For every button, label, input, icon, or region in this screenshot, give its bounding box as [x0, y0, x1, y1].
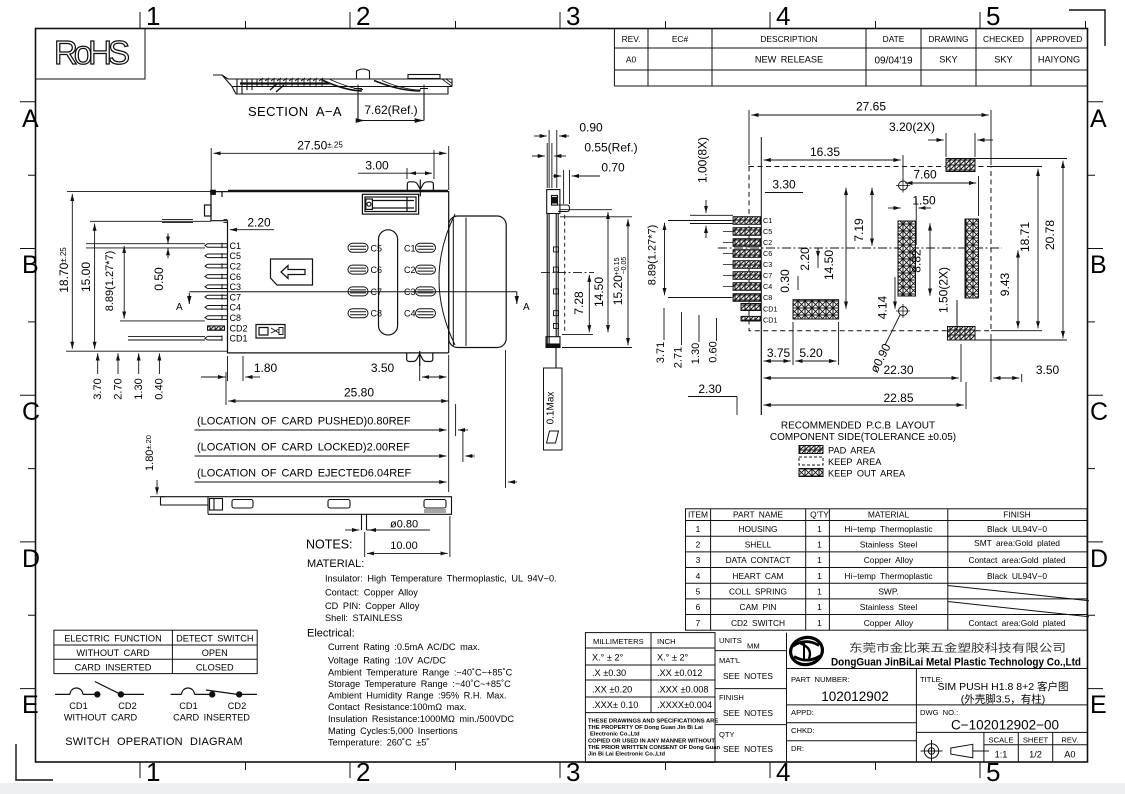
svg-text:7.62(Ref.): 7.62(Ref.): [364, 103, 417, 117]
svg-text:C4: C4: [763, 282, 772, 291]
svg-text:9.43: 9.43: [998, 272, 1012, 296]
svg-text:16.35: 16.35: [810, 145, 840, 159]
svg-text:COMPONENT SIDE(TOLERANCE ±0.05: COMPONENT SIDE(TOLERANCE ±0.05): [770, 432, 956, 443]
svg-text:Stainless Steel: Stainless Steel: [860, 540, 918, 550]
svg-text:EC#: EC#: [672, 34, 689, 44]
svg-text:Hi−temp Thermoplastic: Hi−temp Thermoplastic: [844, 524, 932, 534]
svg-text:DRAWING: DRAWING: [928, 34, 968, 44]
svg-text:CD2: CD2: [230, 323, 248, 333]
svg-text:Insulator: High Temperature Th: Insulator: High Temperature Thermoplasti…: [325, 574, 557, 584]
svg-text:(LOCATION OF CARD EJECTED6.04R: (LOCATION OF CARD EJECTED6.04REF: [197, 468, 411, 480]
svg-text:ELECTRIC FUNCTION: ELECTRIC FUNCTION: [64, 634, 161, 644]
svg-text:COPIED OR USED IN ANY MANNER W: COPIED OR USED IN ANY MANNER WITHOUT: [588, 739, 715, 745]
svg-text:2.30: 2.30: [698, 382, 722, 396]
svg-text:(LOCATION OF CARD LOCKED)2.00R: (LOCATION OF CARD LOCKED)2.00REF: [197, 442, 410, 454]
svg-text:0.1Max: 0.1Max: [546, 392, 557, 425]
svg-text:Current Rating :0.5mA AC/DC ma: Current Rating :0.5mA AC/DC max.: [328, 642, 480, 652]
svg-text:2.70: 2.70: [113, 378, 125, 399]
svg-text:5.20: 5.20: [799, 346, 823, 360]
svg-text:1.30: 1.30: [690, 343, 702, 364]
svg-text:SIM PUSH H1.8 8+2 客户图: SIM PUSH H1.8 8+2 客户图: [938, 680, 1069, 693]
svg-text:SWP.: SWP.: [878, 587, 898, 597]
svg-text:SECTION A−A: SECTION A−A: [248, 104, 342, 119]
svg-text:7.19: 7.19: [852, 218, 866, 242]
svg-text:.XX ±0.20: .XX ±0.20: [592, 685, 632, 695]
svg-text:1: 1: [817, 602, 822, 612]
svg-text:1: 1: [817, 555, 822, 565]
svg-text:X.° ± 2°: X.° ± 2°: [592, 653, 624, 663]
svg-text:C−102012902−00: C−102012902−00: [951, 718, 1059, 733]
svg-text:3.70: 3.70: [92, 378, 104, 399]
svg-text:0.90: 0.90: [579, 121, 603, 135]
svg-text:2.20: 2.20: [798, 247, 812, 271]
svg-text:1: 1: [696, 524, 701, 534]
svg-text:8.82: 8.82: [910, 249, 924, 273]
svg-text:.XX ±0.012: .XX ±0.012: [657, 668, 702, 678]
svg-text:Temperature: 260˚C ±5˚: Temperature: 260˚C ±5˚: [328, 738, 429, 748]
svg-text:C6: C6: [230, 272, 242, 282]
svg-text:09/04'19: 09/04'19: [874, 56, 912, 67]
svg-text:3: 3: [566, 1, 580, 31]
svg-text:14.50: 14.50: [592, 277, 606, 307]
svg-text:THESE DRAWINGS AND SPECIFICATI: THESE DRAWINGS AND SPECIFICATIONS ARE: [588, 719, 718, 725]
svg-text:5: 5: [986, 757, 1000, 787]
svg-text:Storage Temperature Range :−40: Storage Temperature Range :−40˚C~+85˚C: [328, 679, 511, 689]
svg-text:DETECT SWITCH: DETECT SWITCH: [176, 634, 253, 644]
svg-text:C2: C2: [230, 262, 242, 272]
svg-text:3.50: 3.50: [1036, 363, 1060, 377]
svg-text:C: C: [1090, 398, 1108, 426]
svg-text:CARD INSERTED: CARD INSERTED: [75, 663, 152, 673]
svg-text:C1: C1: [404, 243, 416, 253]
svg-text:C8: C8: [371, 309, 383, 319]
svg-text:1: 1: [817, 587, 822, 597]
svg-text:RECOMMENDED P.C.B LAYOUT: RECOMMENDED P.C.B LAYOUT: [781, 421, 935, 432]
svg-text:SEE NOTES: SEE NOTES: [723, 671, 773, 681]
svg-text:Mating Cycles:5,000 Insertions: Mating Cycles:5,000 Insertions: [328, 726, 458, 736]
svg-text:C2: C2: [404, 265, 416, 275]
svg-text:3.20(2X): 3.20(2X): [889, 120, 935, 134]
svg-text:A0: A0: [1064, 750, 1075, 760]
svg-text:PART NUMBER:: PART NUMBER:: [791, 675, 850, 684]
svg-text:Electrical:: Electrical:: [307, 628, 355, 640]
svg-text:WITHOUT CARD: WITHOUT CARD: [76, 648, 150, 658]
svg-text:3.00: 3.00: [365, 159, 389, 173]
svg-text:HEART CAM: HEART CAM: [732, 571, 783, 581]
svg-text:2: 2: [696, 540, 701, 550]
svg-text:E: E: [22, 691, 39, 719]
svg-text:CD2 SWITCH: CD2 SWITCH: [731, 618, 785, 628]
svg-text:C2: C2: [763, 238, 772, 247]
svg-text:Ambient Humidity Range :95% R.: Ambient Humidity Range :95% R.H. Max.: [328, 691, 507, 701]
svg-text:X.° ± 2°: X.° ± 2°: [657, 653, 689, 663]
svg-text:3.30: 3.30: [772, 178, 796, 192]
svg-text:8.89(1.27*7): 8.89(1.27*7): [647, 225, 659, 286]
svg-text:SWITCH OPERATION DIAGRAM: SWITCH OPERATION DIAGRAM: [65, 736, 243, 748]
svg-text:APPD:: APPD:: [791, 708, 814, 717]
svg-text:CHECKED: CHECKED: [983, 34, 1024, 44]
svg-text:Electronic Co.,Ltd: Electronic Co.,Ltd: [590, 732, 640, 738]
svg-text:4.14: 4.14: [876, 295, 890, 319]
svg-text:1.30: 1.30: [133, 378, 145, 399]
svg-text:1: 1: [817, 540, 822, 550]
svg-text:4: 4: [696, 571, 701, 581]
svg-text:.XXXX±0.004: .XXXX±0.004: [657, 700, 712, 710]
svg-text:2.20: 2.20: [247, 216, 271, 230]
svg-text:.XXX± 0.10: .XXX± 0.10: [592, 700, 638, 710]
svg-text:6: 6: [696, 602, 701, 612]
svg-text:REV.: REV.: [1061, 736, 1078, 745]
svg-text:14.50: 14.50: [822, 250, 836, 280]
svg-text:1.50(2X): 1.50(2X): [937, 267, 951, 313]
svg-text:CARD INSERTED: CARD INSERTED: [173, 713, 250, 723]
svg-text:4: 4: [776, 1, 790, 31]
svg-text:0.50: 0.50: [152, 267, 166, 291]
svg-text:A: A: [523, 302, 530, 313]
svg-text:1.50: 1.50: [912, 194, 936, 208]
svg-text:C5: C5: [230, 251, 242, 261]
svg-text:KEEP AREA: KEEP AREA: [828, 457, 882, 467]
svg-text:B: B: [22, 251, 39, 279]
svg-text:CHKD:: CHKD:: [791, 726, 815, 735]
svg-text:RoHS: RoHS: [54, 34, 130, 71]
svg-text:3.50: 3.50: [371, 361, 395, 375]
svg-text:DATE: DATE: [883, 34, 905, 44]
svg-text:CD2: CD2: [118, 701, 136, 711]
svg-text:7.60: 7.60: [913, 168, 937, 182]
svg-text:5: 5: [986, 1, 1000, 31]
svg-text:2: 2: [356, 1, 370, 31]
svg-text:DESCRIPTION: DESCRIPTION: [760, 34, 817, 44]
svg-text:1/2: 1/2: [1029, 750, 1042, 760]
svg-text:20.78: 20.78: [1043, 220, 1057, 250]
svg-text:Contact: Copper Alloy: Contact: Copper Alloy: [325, 588, 418, 598]
svg-text:OPEN: OPEN: [202, 648, 228, 658]
svg-text:2.71: 2.71: [673, 347, 685, 368]
svg-text:SKY: SKY: [939, 55, 957, 65]
svg-text:APPROVED: APPROVED: [1036, 34, 1083, 44]
svg-text:NOTES:: NOTES:: [306, 538, 353, 552]
svg-text:MATERIAL: MATERIAL: [868, 510, 910, 520]
svg-text:Voltage Rating :10V AC/DC: Voltage Rating :10V AC/DC: [328, 656, 446, 666]
svg-text:Shell: STAINLESS: Shell: STAINLESS: [325, 613, 402, 623]
svg-text:SKY: SKY: [994, 55, 1012, 65]
svg-text:C3: C3: [230, 282, 242, 292]
svg-text:PART NAME: PART NAME: [733, 510, 783, 520]
svg-text:18.71: 18.71: [1018, 222, 1032, 252]
svg-text:C3: C3: [763, 260, 772, 269]
svg-text:INCH: INCH: [657, 637, 676, 646]
svg-text:4: 4: [776, 757, 790, 787]
svg-text:DATA CONTACT: DATA CONTACT: [726, 555, 791, 565]
svg-text:C4: C4: [404, 309, 416, 319]
svg-text:HAIYONG: HAIYONG: [1038, 55, 1080, 65]
svg-text:0.60: 0.60: [708, 341, 720, 362]
svg-text:A: A: [22, 105, 39, 133]
svg-text:DWG NO.:: DWG NO.:: [920, 708, 958, 717]
svg-text:1.00(8X): 1.00(8X): [696, 137, 710, 183]
svg-text:3: 3: [566, 757, 580, 787]
svg-text:THE PROPERTY OF Dong Guan Jin: THE PROPERTY OF Dong Guan Jin Bi Lai: [588, 725, 703, 731]
svg-text:CAM PIN: CAM PIN: [740, 602, 777, 612]
svg-text:SEE NOTES: SEE NOTES: [723, 744, 773, 754]
svg-text:0.70: 0.70: [601, 161, 625, 175]
svg-text:SEE NOTES: SEE NOTES: [723, 708, 773, 718]
svg-text:1.80: 1.80: [254, 361, 278, 375]
svg-text:WITHOUT CARD: WITHOUT CARD: [64, 713, 138, 723]
svg-text:DongGuan JinBiLai Metal Plasti: DongGuan JinBiLai Metal Plastic Technolo…: [831, 657, 1081, 669]
svg-text:D: D: [22, 545, 40, 573]
svg-text:0.55(Ref.): 0.55(Ref.): [584, 141, 637, 155]
svg-text:DR:: DR:: [791, 744, 804, 753]
svg-text:C5: C5: [763, 227, 772, 236]
svg-text:(LOCATION OF CARD PUSHED)0.80R: (LOCATION OF CARD PUSHED)0.80REF: [197, 416, 411, 428]
svg-text:MATERIAL:: MATERIAL:: [307, 558, 364, 570]
svg-text:7: 7: [696, 618, 701, 628]
svg-text:SHEET: SHEET: [1023, 736, 1049, 745]
svg-text:Q'TY: Q'TY: [810, 510, 829, 520]
svg-text:SMT area:Gold plated: SMT area:Gold plated: [974, 538, 1060, 548]
svg-text:.X ±0.30: .X ±0.30: [592, 668, 626, 678]
svg-text:7.28: 7.28: [572, 291, 586, 315]
svg-text:Jin Bi Lai Electronic Co.,Ltd: Jin Bi Lai Electronic Co.,Ltd: [588, 752, 665, 758]
svg-text:C1: C1: [230, 241, 242, 251]
svg-text:HOUSING: HOUSING: [738, 524, 777, 534]
svg-text:CD2: CD2: [228, 701, 246, 711]
svg-text:102012902: 102012902: [821, 689, 889, 704]
svg-text:27.65: 27.65: [856, 100, 886, 114]
svg-text:C6: C6: [371, 265, 383, 275]
svg-text:A: A: [176, 302, 183, 313]
svg-text:Stainless Steel: Stainless Steel: [860, 602, 918, 612]
svg-text:东莞市金比莱五金塑胶科技有限公司: 东莞市金比莱五金塑胶科技有限公司: [849, 641, 1066, 655]
svg-text:CD1: CD1: [763, 305, 777, 314]
svg-text:REV.: REV.: [622, 34, 641, 44]
svg-text:Insulation Resistance:1000MΩ m: Insulation Resistance:1000MΩ min./500VDC: [328, 714, 514, 724]
svg-text:C7: C7: [763, 271, 772, 280]
svg-text:1: 1: [817, 524, 822, 534]
svg-text:CD1: CD1: [179, 701, 197, 711]
svg-text:B: B: [1090, 251, 1107, 279]
svg-text:C8: C8: [763, 293, 772, 302]
svg-text:PAD AREA: PAD AREA: [828, 446, 876, 456]
svg-text:ø0.80: ø0.80: [390, 519, 418, 531]
svg-text:Copper Alloy: Copper Alloy: [864, 618, 914, 628]
svg-text:SCALE: SCALE: [989, 736, 1014, 745]
svg-text:Ambient Temperature Range :−40: Ambient Temperature Range :−40˚C~+85˚C: [328, 668, 513, 678]
svg-text:10.00: 10.00: [390, 540, 418, 552]
svg-text:.XXX ±0.008: .XXX ±0.008: [657, 685, 709, 695]
svg-text:A: A: [1090, 105, 1107, 133]
svg-text:CD PIN: Copper Alloy: CD PIN: Copper Alloy: [325, 601, 420, 611]
svg-text:1:1: 1:1: [995, 750, 1008, 760]
svg-text:Contact area:Gold plated: Contact area:Gold plated: [968, 618, 1065, 628]
svg-text:FINISH: FINISH: [1003, 510, 1030, 520]
svg-text:8.89(1.27*7): 8.89(1.27*7): [104, 251, 116, 312]
svg-text:QTY: QTY: [719, 730, 735, 739]
svg-text:22.30: 22.30: [883, 363, 913, 377]
svg-text:Hi−temp Thermoplastic: Hi−temp Thermoplastic: [844, 571, 932, 581]
svg-text:1: 1: [817, 618, 822, 628]
svg-text:Contact area:Gold plated: Contact area:Gold plated: [968, 555, 1065, 565]
svg-text:C1: C1: [763, 216, 772, 225]
svg-text:Contact Resistance:100mΩ max.: Contact Resistance:100mΩ max.: [328, 702, 467, 712]
svg-text:0.40: 0.40: [154, 378, 166, 399]
svg-text:25.80: 25.80: [344, 386, 374, 400]
svg-text:Black UL94V−0: Black UL94V−0: [987, 524, 1047, 534]
svg-text:Black UL94V−0: Black UL94V−0: [987, 571, 1047, 581]
svg-text:1: 1: [817, 571, 822, 581]
svg-text:E: E: [1090, 691, 1107, 719]
svg-text:3.71: 3.71: [655, 342, 667, 363]
svg-text:KEEP OUT AREA: KEEP OUT AREA: [828, 469, 906, 479]
svg-text:C6: C6: [763, 249, 772, 258]
svg-text:MILLIMETERS: MILLIMETERS: [593, 637, 644, 646]
svg-text:COLL SPRING: COLL SPRING: [729, 587, 787, 597]
svg-text:3: 3: [696, 555, 701, 565]
svg-text:D: D: [1090, 545, 1108, 573]
svg-text:Copper Alloy: Copper Alloy: [864, 555, 914, 565]
svg-text:MM: MM: [747, 642, 760, 651]
svg-text:(外壳脚3.5，有柱): (外壳脚3.5，有柱): [961, 693, 1046, 706]
svg-text:CD1: CD1: [230, 334, 248, 344]
svg-text:C4: C4: [230, 303, 242, 313]
svg-text:0.30: 0.30: [778, 269, 792, 293]
svg-text:THE PRIOR WRITTEN CONSENT OF D: THE PRIOR WRITTEN CONSENT OF Dong Guan: [588, 745, 720, 751]
svg-text:MAT'L: MAT'L: [719, 656, 740, 665]
svg-text:C7: C7: [230, 292, 242, 302]
svg-text:NEW RELEASE: NEW RELEASE: [755, 55, 823, 65]
svg-text:C: C: [22, 398, 40, 426]
svg-text:2: 2: [356, 757, 370, 787]
svg-text:1: 1: [146, 757, 160, 787]
svg-text:3.75: 3.75: [767, 346, 791, 360]
svg-text:CD1: CD1: [69, 701, 87, 711]
svg-text:SHELL: SHELL: [745, 540, 772, 550]
svg-text:C8: C8: [230, 313, 242, 323]
svg-text:5: 5: [696, 587, 701, 597]
svg-text:FINISH: FINISH: [719, 693, 744, 702]
svg-text:15.00: 15.00: [79, 262, 93, 292]
svg-text:22.85: 22.85: [883, 391, 913, 405]
svg-text:1: 1: [146, 1, 160, 31]
svg-text:UNITS: UNITS: [719, 636, 742, 645]
svg-text:ITEM: ITEM: [688, 510, 708, 520]
svg-text:CD1: CD1: [763, 316, 777, 325]
svg-text:C5: C5: [371, 243, 383, 253]
svg-text:A0: A0: [626, 55, 637, 65]
svg-text:CLOSED: CLOSED: [196, 663, 234, 673]
